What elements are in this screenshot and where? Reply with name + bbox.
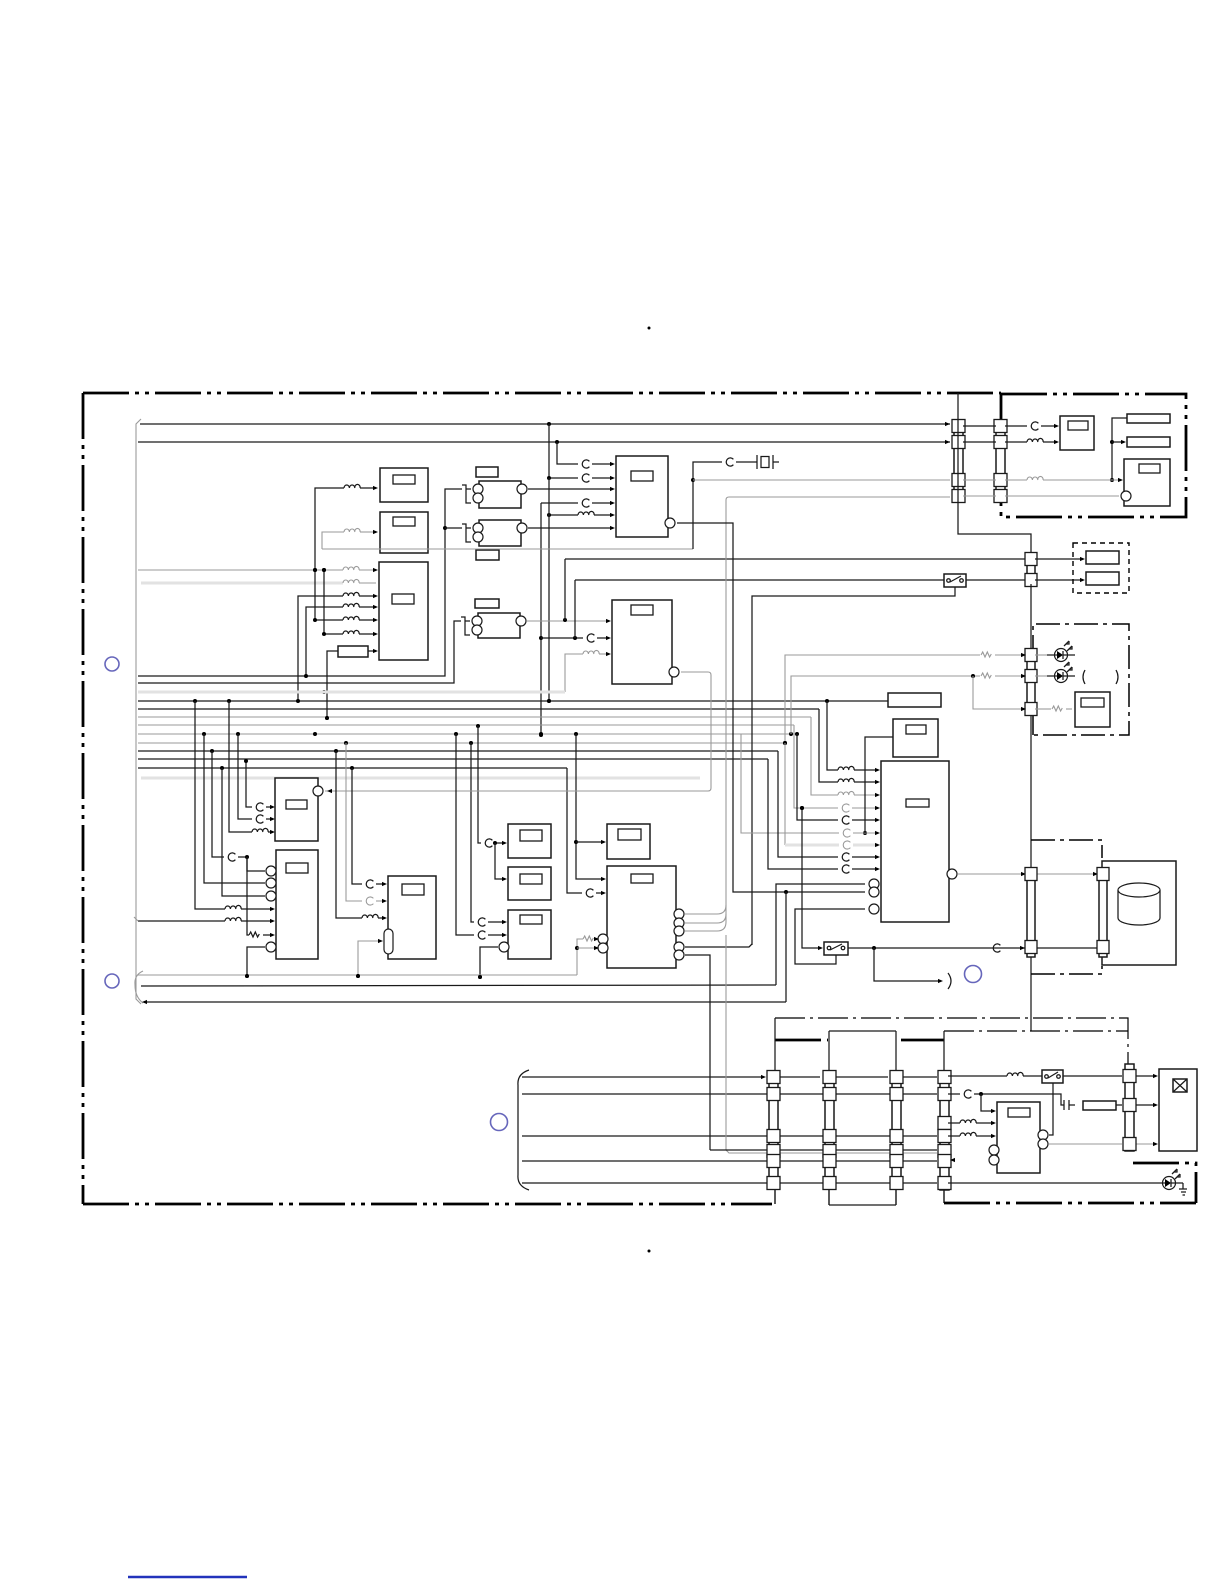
arrow RB 1144 [1153,1142,1158,1146]
arrow U_top 503 [610,501,615,505]
arrow S3 922 [502,920,507,924]
comparator T1 [479,481,521,508]
wire bead to S3 922 [488,921,505,923]
pin T3 out [516,616,526,626]
pin UB1 out 874 [947,869,957,879]
resistor BL2 935 [249,932,259,937]
wire CN H to RB 1105 [1134,1104,1156,1106]
solid middle box bottom [829,1204,896,1206]
motor block RB [1159,1069,1197,1151]
page dot bottom [648,1250,651,1253]
gray bus 975 [138,974,577,979]
wire coil to MB 1137 [976,1135,994,1137]
input bracket T2 [462,524,471,542]
registration circle center bottom [491,1114,508,1131]
wire crystal net gray [322,548,693,550]
pin BL2 871 [266,866,276,876]
bead crystal [726,458,733,466]
wire S3 pin to gray bus [478,947,498,979]
connector CN drum L [1025,868,1037,958]
wire CN H to RB 1076 [1134,1075,1156,1077]
IC amp S3 [508,910,551,959]
bead S1 843 [485,839,492,847]
wire TL1 input from gray rail [315,488,344,570]
pin T3 in a [472,616,482,626]
feeder bus768 to U5 893 [567,768,582,893]
inductor BL3 918 [362,914,378,918]
wire bead to UB1 845 [853,844,878,847]
arrow BL1 832 [270,830,275,834]
IC video U2 [612,600,672,684]
page dot top [648,327,651,330]
wire T3 out gray to U2 [527,618,609,622]
wire CN D to MB 1123 [948,1122,960,1124]
wire bead to U5 893 [596,892,604,894]
resonator capsule BL3 [384,929,393,954]
wire U5 pin955 down [685,955,710,1150]
bus 709 [138,708,819,710]
bead U_top 503 [582,499,589,507]
wire coil to TL3 607 [359,606,376,608]
arrow U2 654 [606,652,611,656]
wire T1 out to U_top 489 [528,488,613,490]
wire T2 out to U_top 528 [528,527,613,529]
arrow U_top 515 [610,513,615,517]
arrow U2 638 [606,636,611,640]
inductor BL2 921 [225,917,241,921]
wire TL2 input elbow [322,532,344,549]
arrow into TL3 634 [373,632,378,636]
wire CN to zig 709 [1035,708,1051,710]
wire LED1 feed gray [783,655,980,745]
wire 579 to switch [575,579,944,581]
pin MB 1150 [989,1145,999,1155]
arrow SM 842 [601,840,606,844]
wire 442 between connectors [963,441,996,443]
arrow into TL3 596 [373,594,378,598]
inductor 1076 [1007,1072,1023,1076]
bead TR1 426 [1031,422,1038,430]
wire LED driver feed [973,676,1024,709]
inductor U2 654 [583,650,599,654]
long wire 1077 b [778,1076,820,1078]
arrow left end bus1002 [142,1000,147,1004]
wire bead to U_top 464 [592,463,613,465]
wire gray 480 coil to TR2 [1005,479,1027,481]
wire bead to UB1 857 [852,856,878,858]
inductor U_top 515 [578,511,594,515]
registration circle mid left [105,974,119,988]
arrow slim1 [1080,557,1085,561]
wire 558 net corner [564,559,566,620]
arrow bus424 into connector [945,422,950,426]
wire switch2 input from 808 net [800,806,820,948]
connector CN C [890,1071,903,1190]
junction TL1 tap on gray rail [313,568,317,572]
arrow U_top 489 [610,487,615,491]
gray hook pin914 [685,905,726,914]
gray wire pin672 to rail791 [458,672,711,791]
wire U_top in 503 [541,502,578,504]
feeder bus743 to S3 922 [471,743,474,922]
IC driver BL1 [275,778,318,841]
connector CN LED [1025,649,1037,716]
bead U5 893 [586,889,593,897]
arrow drum947 [1020,946,1025,950]
drum unit box [1102,861,1176,965]
switch SW3 [1042,1070,1063,1083]
wire 579 net corner [574,580,576,638]
bead UB1 820 [842,816,849,824]
arrow into switch2 [818,946,823,950]
IC mechanism MB [997,1102,1040,1173]
gray rail 480 to connector [693,479,950,481]
wire resistor to TL3 [368,650,376,652]
wire U_top in 464 [557,442,578,464]
bead U2 638 [587,634,594,642]
dark wire 1151 from pin955 [710,1149,937,1151]
wire U_top in 478 [547,424,578,480]
wire switch2 bottom to UB1 pin909 [795,909,865,964]
wire bead to U2 638 [597,637,609,639]
gray734 tap to UB1 833 [741,734,867,835]
arrow UB1 845 [875,843,880,847]
pin U5 right 947 [674,942,684,952]
wire coil to TL2 [360,531,376,533]
connector CN E1 [952,420,965,503]
long wire 1094 [522,1093,937,1095]
feeder bus751 to BL2 858 [212,751,224,857]
wire resistor to CN H [1116,1104,1122,1106]
arrow BL1 819 [270,817,275,821]
arrow BL2 935 [270,933,275,937]
bus986 riser to UB1 pin883 [776,884,865,985]
pin U5 left 939 [598,934,608,944]
long wire 1161 [522,1160,937,1162]
net switch596 down [752,587,955,945]
long wire 1077 d [901,1076,937,1078]
arrow MB 1137 [991,1134,996,1138]
wire MB pin gray 1144 [1049,1143,1122,1145]
inductor BL2 909 [225,905,241,909]
inductor TL3 634 [343,630,359,634]
net U_top503 down to gray bus [539,503,543,737]
arrow TR1 426 [1054,424,1059,428]
wide power rail 583 [141,582,343,585]
label box T2 [476,550,499,560]
wire SM input [576,841,604,843]
arrow TR1 442 [1054,440,1059,444]
IC audio U_top [616,456,668,537]
arrow U2 620 [606,619,611,623]
pin T2 in a [473,523,483,533]
pin UB1 909 [869,904,879,914]
IC regulator TL2 [380,512,428,553]
wire coil to BL2 909 [241,908,273,910]
IC interface U_B1 [881,761,949,922]
feeder bus734 to S3 935 [456,734,474,935]
board edge vertical 775 [774,1018,776,1204]
label box T1 [476,467,498,477]
board edge vertical 944 bottom [943,1186,945,1203]
wire coil to TL3 596 [359,595,376,597]
pin U5 right 923 [674,918,684,928]
arrow UB1 781 [875,780,880,784]
bead UB1 808 [842,804,849,812]
arrow BL2 921 [270,919,275,923]
bus 734 gray [138,732,799,736]
wire BL2 pin947 to gray bus [245,947,265,978]
board edge vertical 829 bottom [828,1186,830,1205]
arrow reference [938,979,943,983]
arrow LED709 [1021,707,1026,711]
board edge vertical 944 top [943,1031,945,1203]
feeder bus751 to BL3 918 [336,751,362,918]
wire zig to CN LED2 [995,675,1024,677]
wire bead to BL3 884 [376,883,385,885]
bead BL1 807 [256,803,263,811]
pin U_top out [665,518,675,528]
pin U5 right 914 [674,909,684,919]
pin T2 out [517,523,527,533]
wire coil to BL1 832 [268,831,273,833]
drum cylinder [1118,883,1160,925]
registration circle right [965,966,982,983]
bus 701 [138,674,888,703]
board edge vertical 829 top [828,1031,830,1205]
connector CN drum R [1097,868,1109,958]
capacitor C bottom [1064,1100,1075,1110]
bead 1094 [964,1090,971,1098]
arrow into TL3 607 [373,605,378,609]
connector CN H [1123,1064,1136,1151]
feeder bus768 to BL2 pin896 [222,768,265,896]
wire coil to U2 654 [599,653,609,655]
wire bead to S3 935 [488,934,505,936]
outer board frame dash-dot bottom edge [83,1203,772,1206]
bus 759 [138,758,768,760]
IC TR1 [1060,416,1094,450]
wire elbow to MB 1111 [981,1094,994,1111]
left hook gray bus group [135,971,143,1003]
arrow LED1 [1021,653,1026,657]
dash-dot LED board box [1033,624,1129,735]
wire bead to TR1 426 [1041,425,1057,427]
wire switch3 to CN H [1063,1075,1122,1077]
wire BL2 coil 921 from rail [138,920,225,922]
connector CN B [823,1071,836,1190]
wire zig to LED driver [1066,708,1072,710]
arrow pin939 [594,937,599,941]
arrow S2 879 [502,877,507,881]
wire S1 net down to S2 [495,843,505,879]
wide wire UB1 845 [785,844,839,847]
input bracket T3 [461,617,470,635]
bead S3 922 [478,918,485,926]
parentheses marker [1083,670,1118,684]
arrow S1 843 [502,841,507,845]
pin UB1 883 [869,879,879,889]
crystal X1 [752,455,779,469]
wire switch2 to drum [848,946,1099,950]
wire U2 in 638 [541,636,583,640]
wire CN H to RB 1144 gray [1134,1143,1156,1145]
arrow bus442 into connector [945,440,950,444]
wire coil to TL1 [360,487,376,489]
wire coil to BL2 921 [241,920,273,922]
arrow LED2 [1021,674,1026,678]
inductor TL3 607 [343,603,359,607]
net U_top out to UB1 pin892 [677,523,865,894]
arrow UB1 870 [875,867,880,871]
wire CN to LED2 [1035,675,1047,677]
bus 725 gray [138,724,794,728]
wire to reference arrow [874,948,940,981]
pin BL2 947 [266,942,276,952]
slim rect TR a [1127,414,1170,423]
wire TL3 input 620 via tap [313,570,343,622]
arrow TR2 480 [1118,478,1123,482]
pin T1 in b [473,493,483,503]
pin TR2 496 [1121,491,1131,501]
long wire 1077 c [834,1076,888,1078]
resistor LED driver [1052,706,1062,711]
option slim rect 1 [1086,551,1119,564]
bead BL3 884 [366,880,373,888]
gray wire UB1 to drum [958,873,1096,875]
arrow UB1 794 [875,793,880,797]
gray hook pin931 [685,922,726,931]
wire Bsmall2 to 833 [865,737,893,833]
arrow U_top 464 [610,462,615,466]
reference paren [948,973,951,989]
pin MB 1160 [989,1155,999,1165]
wire TL3 input 596 from bus [298,596,343,701]
wire connector to option slim1 [1035,558,1083,560]
feeder bus734 down to SM and U5 [574,734,604,879]
pin T1 out [517,484,527,494]
bus709 elbow to UB1 781 [819,709,838,782]
arrow into CN D 1160 [950,1158,955,1162]
slim box end bus701 [888,693,941,707]
wire switch to connector 579 [966,579,1027,581]
wire bead to BL1 819 [266,818,273,820]
wire bead to S1 843 [493,841,505,845]
thin dash-dot outline 1031 right [944,1030,1128,1032]
inductor TL2 input [344,528,360,532]
dash-dot drum box top [1031,840,1102,858]
wire U_top in 515 [547,513,578,517]
resistor U5 939 [583,936,593,941]
gray hook pin923 [685,914,726,923]
pin T1 in a [473,484,483,494]
arrow into capsule [378,939,383,943]
arrow drum874 a [1021,872,1026,876]
net bus424 tap down to bus701 [547,478,551,703]
bus 717 gray [138,716,811,720]
wire T2 input stub [445,527,462,529]
wire coil to MB 1123 [976,1122,994,1124]
wire TL3 input 607 from bus [306,607,343,676]
bead U_top 464 [582,460,589,468]
wire tie to slim b [1112,441,1124,443]
bead BL2 858 [228,853,235,861]
junction TL2 net on wide rail [322,690,326,694]
connector CN D [938,1071,951,1191]
inner region boundary gray vertical [136,419,141,1004]
bead UB1 833 [843,829,850,837]
arrow MB 1123 [991,1121,996,1125]
wire coil to UB1 770 [854,769,878,771]
feeder bus768 to BL3 884 [352,768,362,884]
wire 442 to TR1 [1005,441,1027,443]
wire gray bus up to capsule [356,941,381,978]
resistor R bottom [1083,1101,1116,1110]
IC system regulator TL3 [379,562,428,660]
IC motor driver Bsmall2 [893,719,938,757]
gray riser to U5 pins [575,939,583,975]
wire 496 between connectors [963,495,996,497]
connector CN E2 [994,420,1007,503]
wire bead to UB1 820 [852,819,878,821]
wire bus676 up to T1 T2 [138,489,462,676]
pin MB 1135 [1038,1130,1048,1140]
arrow BL3 901 [382,899,387,903]
wire 1076 to switch3 [948,1075,1007,1077]
arrow U_top 528 [610,526,615,530]
bus717 elbow to UB1 794 [811,717,838,795]
gray wire 1152 [726,935,937,1153]
wire to pin948 [577,947,597,949]
inductor UB1 794 [838,791,854,795]
pin U5 left 948 [598,943,608,953]
arrow BL3 884 [382,882,387,886]
left hook bottom wire group [518,1070,529,1190]
pin T2 in b [473,532,483,542]
wire MB pin to switch3 ctrl [1049,1083,1053,1135]
long vertical 1031 [1030,584,1032,1031]
bus 751 [138,749,778,753]
arrow UB1 808 [875,806,880,810]
wire coil to UB1 781 [854,781,878,783]
IC syscon BL2 [276,850,318,959]
wire 1094 bead [948,1093,960,1095]
wire U5 pin947 to riser [685,944,752,947]
IC amp S2 [508,867,551,900]
wire zig to pin939 [597,938,598,940]
inductor TL3 input 583 [343,579,359,583]
IC regulator TL1 [380,468,428,502]
wire CN to LED1 [1035,654,1047,656]
wire coil to TL3 570 [359,569,376,571]
registration circle top left [105,657,119,671]
gray wire to BL1 pin [325,790,458,792]
pin U5 right 955 [674,950,684,960]
long wire 1183 [522,1182,937,1184]
arrow UB1 770 [875,768,880,772]
inductor TL3 620 [343,616,359,620]
inductor TL1 input [344,484,360,488]
arrow BL3 918 [382,916,387,920]
wire resistor feed [325,651,338,720]
wire LED2 feed gray [791,674,980,734]
gray riser net U5 pins to rail497 [726,497,950,922]
switch SW2 [824,942,848,955]
connector CN mid [1025,553,1037,587]
dash-dot drum box bottom [1031,966,1102,974]
wire bead to UB1 833 [853,832,878,834]
bus701 tap to UB1 770 [827,701,838,770]
